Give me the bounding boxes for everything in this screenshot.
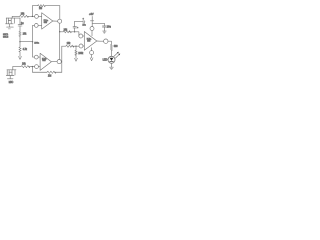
wire resistor to LED: [110, 51, 112, 57]
resistor 4.7k to ground: [19, 42, 21, 57]
op-amp IC2 input circle upper: [79, 34, 83, 38]
svg-text:10u: 10u: [82, 25, 85, 27]
wire output column IC1a to IC1b: [59, 23, 61, 59]
power circle top pin IC2: [90, 27, 94, 31]
op-amp IC1b output circle: [57, 60, 61, 64]
ground arrow IC2: [90, 58, 93, 61]
wire apex to output circle: [97, 40, 104, 42]
svg-text:1M: 1M: [39, 8, 42, 10]
wire IC2 output to LED branch: [108, 41, 111, 44]
node dot feedback tap: [32, 16, 33, 17]
wire cap to resistor: [19, 26, 21, 31]
wire row mic2: [13, 66, 35, 68]
svg-text:10k: 10k: [67, 43, 72, 45]
capacitor C3 vertical (bias to corner): [74, 28, 76, 32]
LED cathode bar: [110, 60, 114, 62]
svg-text:10k: 10k: [21, 14, 26, 16]
wire rail to bypass cap: [92, 22, 104, 24]
svg-text:4.7k: 4.7k: [23, 49, 28, 51]
capacitor C1 plates: [18, 25, 22, 26]
svg-text:358: 358: [44, 22, 47, 24]
wire IC1a output tap row to IC2 upper input: [60, 31, 75, 33]
node dot on output column: [59, 31, 60, 32]
wire output column up to mixer row: [61, 46, 63, 72]
svg-text:10u: 10u: [107, 25, 112, 28]
resistor 10k series mic2: [21, 66, 30, 68]
LED arrows: [114, 52, 120, 58]
svg-text:10k: 10k: [22, 63, 27, 65]
wire circle to triangle top: [91, 31, 93, 36]
wire to IC2 upper input with jog: [75, 32, 79, 36]
wire bias to IC1b input: [33, 56, 35, 58]
svg-text:1u: 1u: [21, 22, 24, 25]
resistor 680 LED: [110, 45, 112, 51]
wire node to bias column: [20, 41, 33, 43]
op-amp IC1a input circle +: [35, 15, 39, 19]
svg-text:MIC: MIC: [9, 81, 14, 84]
wire mic1 to row B: [11, 16, 13, 18]
svg-text:358: 358: [87, 41, 90, 43]
ground arrow (below 4.7k): [19, 57, 22, 60]
svg-text:10k: 10k: [23, 34, 28, 36]
node junction: [19, 41, 20, 42]
wire input leads IC2: [83, 36, 85, 46]
op-amp IC1b input circle upper: [34, 55, 38, 59]
node dot mic2 feedback tap: [32, 66, 33, 67]
wire input leads IC1b: [38, 57, 40, 67]
resistor R2 1M feedback: [38, 5, 46, 7]
svg-text:MIC2: MIC2: [3, 36, 9, 38]
node dot divider tap: [75, 46, 76, 47]
capacitor C4 horizontal electrolytic: [75, 21, 83, 23]
microphone MIC2: [6, 70, 16, 79]
op-amp IC1b triangle: [40, 53, 51, 70]
feedback wire right down to output: [59, 6, 61, 20]
feedback loop IC1b bottom: [32, 67, 47, 73]
wire LED to ground: [111, 63, 113, 67]
capacitor C1 chain from mic node: [19, 18, 21, 24]
microphone MIC1: [6, 18, 21, 29]
wire IC1b output stub: [60, 61, 63, 63]
power circle bottom pin IC2: [90, 51, 94, 55]
wire circle to ground: [91, 55, 93, 58]
op-amp IC2 triangle: [84, 32, 97, 51]
resistor 100k to ground: [75, 46, 77, 58]
resistor 10k to IC2 upper: [63, 31, 71, 33]
feedback wire to output column: [55, 71, 62, 73]
wire mic2 to row: [12, 67, 14, 70]
resistor 1M feedback IC1b: [47, 71, 56, 73]
svg-text:358: 358: [42, 60, 45, 62]
ground bars bypass: [103, 31, 107, 33]
ground arrow 100k: [75, 58, 78, 61]
resistor R1 10k (series mic1): [20, 15, 29, 17]
wire input leads IC1a: [38, 16, 41, 25]
svg-text:680: 680: [114, 46, 119, 48]
svg-text:100k: 100k: [78, 53, 84, 55]
power pin bottom IC2: [91, 48, 93, 51]
wire bias to IC1a inverting input: [33, 24, 35, 26]
op-amp IC1a triangle: [42, 13, 53, 29]
svg-text:1M: 1M: [48, 75, 51, 78]
LED triangle: [110, 58, 114, 61]
node dot bias column: [32, 41, 33, 42]
feedback wire IC1a left: [31, 6, 33, 17]
svg-text:100n: 100n: [34, 42, 40, 44]
svg-text:+: +: [77, 27, 79, 29]
svg-text:+9V: +9V: [89, 13, 94, 16]
op-amp IC1a input circle -: [34, 24, 38, 28]
power rail tap bar: [90, 20, 93, 22]
resistor 10k mixer: [66, 45, 74, 47]
power wire down from +9V: [91, 16, 93, 26]
node dot bias cap tap: [74, 31, 75, 32]
op-amp IC2 output circle: [104, 39, 108, 43]
wire resistor to node: [19, 36, 21, 41]
svg-text:LED: LED: [103, 58, 108, 61]
op-amp IC1b input circle lower: [35, 65, 39, 69]
wire row B (mic1 signal): [12, 15, 34, 17]
LED circle: [108, 56, 115, 63]
wire cap to ground: [103, 27, 105, 31]
ground bars LED: [110, 67, 114, 69]
resistor 10k vertical: [19, 31, 21, 36]
feedback wire top row A: [32, 5, 59, 7]
capacitor C5 bypass: [103, 23, 105, 25]
op-amp IC1a output circle: [58, 19, 62, 23]
op-amp IC2 input circle lower: [79, 44, 83, 48]
wire mixer row to IC2 lower input: [62, 45, 79, 47]
svg-text:+: +: [83, 17, 85, 20]
stub C4 right: [84, 21, 86, 23]
wire bias column vertical: [32, 25, 34, 57]
